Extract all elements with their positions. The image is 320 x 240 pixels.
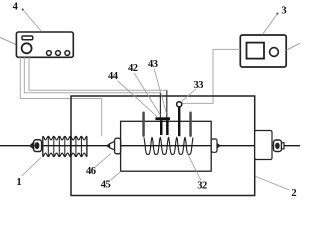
wire C from box4 to chamber interior xyxy=(20,57,101,136)
heating coil 32 xyxy=(144,138,193,155)
leader line 46 xyxy=(96,154,112,167)
leader line 4 xyxy=(23,10,41,32)
bellows 1 bottom profile xyxy=(43,153,87,157)
leader line 45 xyxy=(111,171,121,180)
inlet fitting body xyxy=(34,140,42,152)
wire from box3 to sensor 33 xyxy=(182,49,240,103)
electrode holder bar 44 xyxy=(155,117,170,120)
right flange block on box 2 xyxy=(255,131,272,160)
display slot of box 4 xyxy=(22,36,33,40)
button 2 of box 4 xyxy=(56,51,61,56)
svg-text:46: 46 xyxy=(86,166,96,177)
leader line 44 xyxy=(118,81,157,117)
leader line 42 xyxy=(134,73,160,115)
sensor 33 bulb xyxy=(177,102,182,107)
button 1 of box 4 xyxy=(47,51,52,56)
control box U4 xyxy=(16,32,73,57)
svg-text:45: 45 xyxy=(101,180,111,191)
wire from box3 to right edge xyxy=(286,43,300,50)
display of box 3 xyxy=(247,43,265,59)
wire B from box4 to left electrode xyxy=(24,57,160,92)
right electrode lead 43 xyxy=(166,90,168,117)
outlet connector tip xyxy=(217,144,220,149)
outlet fitting body xyxy=(274,140,282,152)
bellows 1 right wall xyxy=(86,136,88,156)
svg-text:2: 2 xyxy=(291,188,296,199)
instrument box U3 xyxy=(240,35,286,67)
svg-text:1: 1 xyxy=(16,177,21,188)
svg-text:33: 33 xyxy=(194,80,204,91)
left electrode lead 42 xyxy=(159,93,161,118)
left support post xyxy=(142,112,145,138)
outlet connector body xyxy=(211,139,217,152)
sensor 33 rod xyxy=(178,107,180,136)
connector 46 horn xyxy=(110,142,115,150)
button 3 of box 4 xyxy=(65,51,70,56)
leader line 2 xyxy=(256,177,290,191)
svg-text:43: 43 xyxy=(148,59,158,70)
bellows 1 top profile xyxy=(43,136,87,140)
big knob of box 4 xyxy=(22,43,32,53)
svg-text:42: 42 xyxy=(128,63,138,74)
knob of box 3 xyxy=(270,48,279,57)
wire A from box4 to right electrode xyxy=(29,57,167,90)
right support post xyxy=(189,112,192,138)
bellows 1 left wall xyxy=(42,136,44,156)
svg-text:4: 4 xyxy=(13,2,19,13)
leader dot for 3 xyxy=(276,13,278,15)
svg-text:32: 32 xyxy=(197,181,207,192)
inlet fitting tip xyxy=(30,142,34,150)
inner reactor box 45 xyxy=(121,121,212,171)
svg-text:3: 3 xyxy=(281,5,286,16)
leader line 43 xyxy=(154,69,167,114)
outer chamber box 2 xyxy=(71,96,255,196)
main gas line xyxy=(0,145,300,147)
inlet fitting core xyxy=(35,142,40,149)
leader line 33 xyxy=(182,89,196,101)
leader line 3 xyxy=(263,14,278,35)
outlet fitting core xyxy=(275,143,280,149)
bellows 1 division lines xyxy=(48,136,81,156)
connector 46 body xyxy=(115,138,121,154)
leader dot for 4 xyxy=(22,9,24,11)
electrode plate left xyxy=(160,120,163,135)
svg-text:44: 44 xyxy=(108,71,119,82)
wire from left edge to control box 4 xyxy=(0,38,16,45)
leader line 32 xyxy=(187,153,201,180)
leader line 1 xyxy=(22,158,41,177)
electrode plate right xyxy=(166,120,169,135)
connector 46 nub xyxy=(107,144,109,147)
outlet fitting tip xyxy=(282,143,285,149)
